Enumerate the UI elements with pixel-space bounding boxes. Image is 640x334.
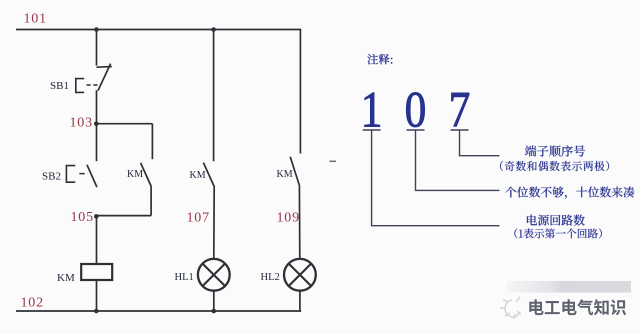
wire lamp HL2 to bottom rail bbox=[299, 291, 301, 311]
wire lamp HL1 to bottom rail bbox=[213, 291, 215, 311]
coil KM bbox=[81, 264, 112, 280]
note text 个位数不够十位数来凑 bbox=[505, 187, 634, 199]
contact KM aux (NO) blade bbox=[141, 163, 152, 187]
pushbutton SB2 actuator dashed link bbox=[79, 173, 88, 175]
wire KM branch down bbox=[151, 124, 153, 160]
svg-text:SB2: SB2 bbox=[42, 171, 61, 183]
wire coil KM to bottom rail bbox=[96, 280, 98, 311]
pushbutton SB1 (NC) contact bar bbox=[97, 66, 112, 69]
pushbutton SB1 actuator bbox=[76, 79, 84, 93]
note text 电源回路数 bbox=[527, 215, 585, 226]
svg-text:109: 109 bbox=[277, 210, 300, 225]
svg-text:KM: KM bbox=[127, 169, 143, 180]
svg-text:103: 103 bbox=[70, 115, 93, 130]
svg-text:KM: KM bbox=[277, 169, 293, 180]
wire HL1 branch from top rail bbox=[213, 30, 215, 162]
pushbutton SB2 (NO) blade bbox=[87, 165, 97, 187]
junction bottom rail / coil branch bbox=[94, 309, 99, 314]
junction top rail / SB1 branch bbox=[94, 27, 99, 32]
svg-text:105: 105 bbox=[71, 210, 94, 225]
svg-text:HL1: HL1 bbox=[175, 272, 194, 283]
junction bottom rail / HL1 branch bbox=[212, 309, 217, 314]
wire bottom rail 102 bbox=[16, 310, 301, 312]
note title 注释 bbox=[367, 54, 392, 65]
svg-text:107: 107 bbox=[187, 210, 210, 225]
lamp HL2 cross bbox=[289, 264, 311, 286]
svg-text:SB1: SB1 bbox=[50, 80, 69, 92]
leader line from digit 1 bbox=[363, 130, 500, 226]
junction top rail / HL1 branch bbox=[211, 27, 216, 32]
note text 奇数和偶数表示两极 bbox=[500, 161, 609, 171]
lamp HL2 circle bbox=[284, 259, 316, 291]
wire HL2 branch from top rail bbox=[299, 30, 301, 154]
node 105 junction bbox=[94, 214, 99, 219]
pushbutton SB1 (NC) blade bbox=[98, 64, 111, 91]
wire KM aux to node 105 horizontal bbox=[97, 215, 152, 217]
leader line from digit 0 bbox=[407, 130, 500, 190]
leader line from digit 7 bbox=[451, 130, 500, 156]
wire KM contact to lamp HL2 bbox=[298, 185, 300, 259]
pushbutton SB2 actuator bbox=[66, 166, 75, 183]
wire node 103 to SB2 bbox=[96, 124, 98, 162]
wire 101 to SB1 bbox=[96, 30, 98, 66]
note text 1表示第一个回路 bbox=[514, 228, 602, 238]
lamp HL1 circle bbox=[198, 259, 230, 291]
note text 端子顺序号 bbox=[525, 145, 585, 156]
wire SB1 to node 103 bbox=[96, 90, 98, 124]
svg-text:KM: KM bbox=[57, 272, 75, 284]
svg-text:102: 102 bbox=[21, 295, 44, 310]
watermark icon bbox=[500, 297, 521, 319]
svg-text:HL2: HL2 bbox=[261, 272, 280, 283]
svg-text:101: 101 bbox=[24, 12, 47, 27]
contact KM for HL2 (NO) blade bbox=[290, 157, 299, 186]
pushbutton SB1 actuator dashed link bbox=[87, 84, 99, 86]
wire KM aux to node 105 vertical bbox=[150, 186, 152, 215]
contact KM for HL1 (NO) blade bbox=[203, 163, 214, 187]
node 103 junction bbox=[94, 121, 99, 126]
wire top rail 101 bbox=[16, 29, 301, 31]
tie mark bbox=[330, 160, 337, 162]
wire node 103 to KM branch bbox=[97, 123, 153, 125]
svg-text:KM: KM bbox=[190, 170, 206, 181]
lamp HL1 cross bbox=[203, 264, 225, 286]
watermark text 电工电气知识 bbox=[529, 299, 626, 315]
wire node 105 to coil KM bbox=[96, 216, 98, 264]
wire KM contact to lamp HL1 bbox=[213, 187, 215, 259]
